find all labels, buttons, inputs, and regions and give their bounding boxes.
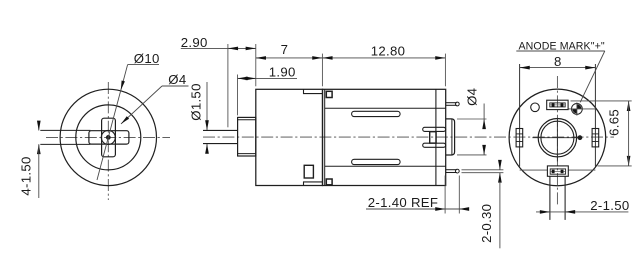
- front housing body: [256, 89, 323, 185]
- front view outer circle (motor face, leader Ø10): [60, 89, 156, 185]
- dim 6.65 upper arrow: [628, 101, 630, 110]
- dim 6.65 lower arrow: [628, 157, 630, 166]
- can bottom-left square hole: [326, 179, 332, 185]
- anode mark label underline: [516, 50, 605, 52]
- ext line housing front: [255, 44, 257, 86]
- svg-text:6.65: 6.65: [606, 109, 621, 136]
- svg-text:8: 8: [554, 54, 562, 69]
- svg-text:Ø4: Ø4: [465, 88, 480, 106]
- shaft lower line: [203, 143, 238, 145]
- dim 2-1.50 left arrow: [542, 211, 550, 213]
- bearing crosshair horizontal: [532, 137, 579, 139]
- svg-text:2-0.30: 2-0.30: [479, 204, 494, 243]
- dim 1.90 right arrow: [248, 77, 256, 79]
- dim 2.90 right arrow: [247, 47, 255, 49]
- dim Ø4 boss lower arrow: [483, 146, 485, 155]
- rear top terminal left pad: [552, 103, 555, 107]
- dim 8 right arrow: [587, 67, 595, 69]
- shaft upper line: [203, 129, 238, 131]
- dim 12.80 right arrow: [437, 57, 445, 59]
- ext line pin tip: [458, 176, 460, 214]
- anode mark filled quadrant bottom-left: [572, 109, 577, 114]
- rear bottom terminal inner: [550, 169, 565, 174]
- commutator square: [430, 132, 436, 143]
- rear bearing boss: [446, 119, 455, 155]
- can upper vent slot: [352, 111, 401, 116]
- rear view vertical centerline: [556, 76, 558, 205]
- shaft end dot: [578, 136, 582, 140]
- endcap seam right: [568, 169, 595, 171]
- bearing crosshair vertical: [556, 118, 558, 161]
- bushing inner bottom line: [238, 153, 256, 155]
- dim 2-0.30 leader tail: [499, 182, 501, 249]
- ext line boss top: [457, 118, 487, 120]
- dim 1.90 line: [238, 77, 298, 79]
- motor can body: [323, 89, 446, 185]
- bushing inner top line: [238, 119, 256, 121]
- dim 2-0.30 upper arrow: [499, 161, 501, 170]
- lower terminal pin top line: [446, 169, 457, 171]
- front view vertical centerline: [107, 82, 109, 200]
- upper terminal pin tip: [455, 102, 459, 106]
- dim Ø1.50 arrow lower: [206, 144, 208, 153]
- dim 2.90 left arrow: [228, 47, 236, 49]
- dim Ø4 underline: [162, 85, 189, 87]
- front view shaft circle: [101, 130, 115, 144]
- rear top terminal right pad: [561, 103, 564, 107]
- dim 7 left arrow: [256, 57, 264, 59]
- can top band line: [325, 107, 446, 109]
- svg-text:4-1.50: 4-1.50: [19, 156, 34, 195]
- front view center dot: [106, 136, 110, 140]
- rear left side tab: [516, 129, 523, 147]
- dim 2-1.40 line: [366, 208, 469, 210]
- brush lower finger: [423, 143, 446, 147]
- dim 1.90 left arrow: [238, 77, 246, 79]
- dim 2-0.30 lower arrow: [499, 173, 501, 182]
- dim 7 right arrow: [314, 57, 322, 59]
- brush upper finger: [423, 127, 446, 131]
- ext line 6.65 bottom: [598, 165, 632, 167]
- anode mark horizontal line: [568, 108, 595, 110]
- rear view outline circle: [509, 89, 606, 186]
- svg-text:2-1.40 REF: 2-1.40 REF: [368, 195, 438, 210]
- dim 8 left arrow: [520, 67, 528, 69]
- rear bottom terminal mid line: [550, 171, 565, 173]
- endcap seam left: [520, 169, 548, 171]
- rear bearing outer circle: [538, 119, 576, 157]
- dim Ø1.50 arrow upper: [206, 82, 208, 130]
- front view cross slot horizontal bar: [89, 131, 129, 144]
- dim 2-1.50 right arrow: [565, 211, 573, 213]
- dim 2-1.40 left arrow: [437, 208, 445, 210]
- dim Ø4 boss leader tail: [483, 104, 485, 120]
- main horizontal centerline (shared axis): [203, 136, 614, 138]
- can left inner line: [324, 89, 326, 185]
- ext line shaft tip: [227, 44, 229, 127]
- can top-left square hole: [326, 91, 332, 97]
- rear top terminal mid line: [550, 104, 565, 106]
- front view horizontal centerline: [46, 136, 170, 138]
- rear left flat chord: [519, 64, 521, 167]
- dim 2-1.40 right arrow: [459, 208, 467, 210]
- dim 12.80 left arrow: [323, 57, 331, 59]
- front housing top step: [304, 89, 323, 93]
- dim Ø4 boss upper arrow: [483, 119, 485, 128]
- dim Ø4 arrowhead: [121, 116, 129, 124]
- ext line pin root: [444, 176, 446, 214]
- rear bottom terminal right pad: [561, 170, 564, 174]
- ext line bushing tip: [237, 75, 239, 116]
- slot flat extension line upper: [40, 129, 90, 131]
- front view cross slot vertical bar: [102, 118, 116, 157]
- dim 7 line: [256, 57, 323, 59]
- rear pilot hole: [531, 103, 540, 112]
- anode mark leader line: [580, 51, 605, 102]
- shaft bushing: [238, 117, 256, 156]
- rear bottom terminal left pad: [552, 170, 555, 174]
- rear top terminal inner: [550, 103, 565, 107]
- rear top terminal outer: [547, 100, 568, 109]
- dim 12.80 line: [322, 57, 445, 59]
- anode mark filled quadrant top-right: [577, 104, 582, 109]
- can rear crimp line: [435, 89, 437, 185]
- svg-text:2-1.50: 2-1.50: [590, 198, 629, 213]
- anode mark circle: [572, 104, 583, 115]
- svg-text:Ø4: Ø4: [168, 72, 186, 87]
- can lower vent slot: [352, 159, 401, 164]
- svg-text:7: 7: [281, 42, 289, 57]
- front view inner circle (gearbox boss): [76, 105, 141, 170]
- dim Ø4 leader line: [121, 86, 162, 124]
- dim 8 line: [520, 67, 596, 69]
- svg-text:Ø10: Ø10: [134, 51, 160, 66]
- upper terminal pin bottom line: [446, 104, 457, 106]
- rear bearing inner circle: [541, 121, 574, 154]
- dim 6.65 line: [628, 101, 630, 165]
- rear left tab line 2: [516, 141, 523, 143]
- dim 4-1.50 arrow lower: [38, 144, 40, 153]
- rear right flat chord: [594, 64, 596, 167]
- bottom solder tab left edge: [549, 176, 551, 220]
- ext line boss bottom: [457, 154, 487, 156]
- ext line pin thickness top: [462, 169, 504, 171]
- lower terminal pin bottom line: [446, 172, 457, 174]
- rear bottom terminal outer: [547, 166, 568, 176]
- front housing rectangular hole: [304, 165, 313, 178]
- ext line can rear: [444, 54, 446, 87]
- dim 4-1.50 arrow upper: [38, 121, 40, 130]
- rear right tab line 2: [592, 141, 599, 143]
- ext line 6.65 top: [571, 100, 632, 102]
- dim 2-1.50 line: [536, 211, 628, 213]
- upper terminal pin top line: [446, 102, 457, 104]
- slot flat extension line lower: [40, 143, 90, 145]
- dim Ø10 leader line: [97, 65, 128, 180]
- svg-text:1.90: 1.90: [269, 65, 296, 80]
- ext line pin thickness bottom: [462, 172, 504, 174]
- svg-text:12.80: 12.80: [371, 44, 406, 59]
- ext line housing/can joint: [321, 54, 323, 87]
- lower terminal pin tip: [455, 169, 459, 173]
- dim 4-1.50 leader tail: [38, 144, 40, 198]
- front housing bottom step: [304, 182, 323, 186]
- rear right side tab: [592, 129, 599, 147]
- rear right tab line 1: [592, 133, 599, 135]
- rear boss inner line: [451, 119, 453, 154]
- rear left tab line 1: [516, 133, 523, 135]
- dim Ø10 arrowhead: [121, 81, 125, 91]
- dim 2.90 line: [181, 47, 256, 49]
- dim Ø10 underline: [128, 64, 159, 66]
- bottom solder tab right edge: [564, 176, 566, 220]
- can bottom band line: [325, 165, 446, 167]
- svg-text:Ø1.50: Ø1.50: [189, 83, 204, 120]
- anode mark vertical line: [576, 102, 578, 115]
